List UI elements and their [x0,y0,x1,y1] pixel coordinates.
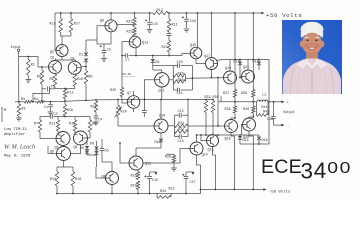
svg-text:R11: R11 [49,123,55,127]
wire output minus [274,124,284,126]
svg-text:D5: D5 [80,147,84,151]
transistor Q6 [57,147,71,161]
wire bottom left rail [57,190,201,194]
wire Q11 emitter [161,87,163,100]
wire R12 to Q4 [75,131,78,135]
resistor R19 [95,99,97,102]
svg-text:C12: C12 [178,110,184,114]
diode D14 [258,60,260,62]
capacitor C16 [186,13,188,19]
svg-text:C15: C15 [152,179,158,183]
resistor R23 lower [136,181,139,190]
resistor R9 [54,73,56,76]
resistor R10 [74,73,76,75]
svg-text:Q8: Q8 [102,176,106,180]
svg-text:Q14: Q14 [202,154,208,158]
wire Q16 base [201,135,207,141]
resistor R13 vas [63,89,66,99]
svg-text:D15: D15 [243,139,249,143]
node rail junctions [60,12,62,14]
wire left stub from rail [54,13,56,44]
svg-text:R33: R33 [205,96,211,100]
diode D5 [86,141,88,146]
svg-text:R40: R40 [243,108,249,112]
svg-text:C17: C17 [190,181,196,185]
svg-text:D1: D1 [79,54,83,58]
resistor R39 [233,106,236,113]
wire Q18 collector [231,118,235,120]
wire base hook [33,89,50,102]
svg-text:R42: R42 [263,111,269,115]
svg-text:Q17: Q17 [204,55,210,59]
wire Q15 collector [197,13,199,49]
resistor R34 [156,194,158,198]
svg-text:C13: C13 [178,140,184,144]
resistor R21 [134,13,136,18]
svg-text:C15: C15 [152,23,158,27]
wire Q14 collector [196,135,198,142]
resistor R16 [64,101,66,105]
svg-text:C16: C16 [190,20,196,24]
diode D9 [152,56,154,59]
svg-text:R16: R16 [67,109,73,113]
ladder C11 [173,89,177,91]
wire bottom -56V rail [201,189,265,191]
capacitor C18 [271,117,276,119]
svg-text:C6: C6 [105,150,109,154]
diode D8 [94,151,98,154]
resistor R12 [74,117,76,121]
wire R5 top [41,67,43,71]
svg-text:W. M. Leach: W. M. Leach [4,144,35,151]
capacitor C4 [95,112,97,116]
capacitor C5 [103,44,105,50]
resistor R8 [89,117,91,121]
ladder R29 [173,74,185,77]
wire Q3 base [82,66,86,68]
node input [17,49,20,52]
wire to Q15 base [169,54,190,56]
resistor R36 [212,100,214,101]
svg-text:May 8, 1978: May 8, 1978 [4,155,31,159]
ladder C10 [153,65,178,67]
svg-text:R1: R1 [31,64,35,68]
wire Q7 stubs [133,91,135,96]
svg-text:0: 0 [327,160,338,177]
wire Q15 emitter [196,59,206,64]
svg-text:Q6: Q6 [50,151,54,155]
svg-text:R7: R7 [34,123,38,127]
transistor Q2 [56,132,70,146]
svg-text:-56 Volts: -56 Volts [269,189,291,194]
svg-text:43-46: 43-46 [122,73,131,76]
svg-text:R23: R23 [127,31,133,35]
svg-text:R39: R39 [225,108,231,112]
wire Q13 collector [134,35,136,37]
svg-text:R3: R3 [21,98,25,102]
resistor R27 [167,41,170,53]
ground [101,59,107,62]
capacitor C7 [126,53,128,58]
capacitor C1 shunt [50,102,52,105]
svg-text:Q15: Q15 [190,44,196,48]
resistor R15 [60,13,62,19]
svg-text:C5: C5 [107,49,111,53]
wire Q9 emitter to C5 [104,32,111,44]
svg-text:R2: R2 [22,108,26,112]
diode D15 [238,136,242,139]
capacitor C15 [149,13,151,21]
resistor R7 [39,117,41,121]
transistor Q7 [127,96,140,109]
wire input coupling to Q1 base [28,57,49,68]
svg-text:D10: D10 [155,141,161,145]
resistor R25 [120,88,123,97]
wire Q10 collector [160,100,162,120]
resistor R11 lower [57,117,59,121]
ground [18,117,20,118]
diode D7 [85,151,89,154]
svg-text:R29: R29 [178,73,184,77]
svg-text:R4: R4 [34,98,38,102]
resistor R33 [205,100,207,101]
svg-text:C11: C11 [177,92,183,96]
wire Q16 emitter [213,147,216,190]
svg-text:R11: R11 [172,24,178,28]
svg-text:R19: R19 [91,106,97,110]
wire Q5 emitter to diff pair [61,57,63,61]
transistor Q4 [74,131,88,145]
svg-text:R15: R15 [50,178,56,182]
wire diode return [240,143,269,145]
resistor R11 [168,13,170,19]
svg-text:R27: R27 [162,46,168,50]
capacitor C1 [48,87,50,92]
wire Q21 collector [247,60,249,71]
wire Q17 emitter down [211,70,213,78]
resistor R19 lower [72,167,74,172]
transistor Q16 [207,135,219,147]
svg-text:R9: R9 [50,78,54,82]
wire R11 to Q2 [58,131,60,136]
capacitor C15 lower [149,172,151,176]
svg-text:R12: R12 [69,123,75,127]
svg-text:R17: R17 [74,23,80,27]
wire R25 to Q7 base [122,97,127,104]
ground [184,29,190,32]
svg-text:C3: C3 [54,113,58,117]
svg-text:Low TIM-IL: Low TIM-IL [4,128,28,132]
svg-text:R25: R25 [110,89,116,93]
node [135,55,137,57]
capacitor C9 [168,32,170,33]
svg-text:Q12: Q12 [145,163,151,167]
ladder R32 [175,130,189,133]
resistor R38 [252,90,255,98]
resistor R24 trimmer [117,100,119,106]
resistor R26 [136,172,139,180]
node mid dots [18,101,20,103]
svg-text:R10: R10 [77,78,83,82]
ground [27,75,29,79]
wire C17 top [186,171,193,173]
svg-text:R6: R6 [88,76,92,80]
wire Q18 base line [188,125,225,127]
svg-text:Q13: Q13 [142,42,148,46]
wire cross net [58,116,75,118]
wire Q13 emitter to mid line [135,48,137,56]
resistor R2 [18,102,20,104]
svg-text:R38: R38 [241,92,247,96]
wire to output terminal [268,101,283,103]
svg-text:R26: R26 [131,175,137,179]
wire Q10 base [118,125,154,127]
wire Q12 emitter [136,170,138,172]
transistor Q10 [154,119,168,133]
transistor Q20 [243,118,256,131]
ladder C13 [175,136,180,138]
transistor Q15 [190,47,202,59]
ground [93,122,99,125]
wire Q2 emitter to Q6 [62,145,65,148]
wire C15 top [150,171,157,173]
svg-text:Q4: Q4 [74,146,78,150]
arrow output plus [281,101,284,104]
svg-text:R32: R32 [178,128,184,132]
resistor R23 [133,28,136,36]
svg-text:Q1: Q1 [51,57,55,61]
wire Q14 base to Q12 [143,149,190,164]
wire Q21 base [240,76,242,78]
wire right bus B [252,13,254,90]
wire Q5 base [55,44,56,51]
wire ladder rails [172,66,174,91]
wire Q9 to R21 [117,24,135,26]
resistor R37 [233,90,236,98]
svg-text:R28: R28 [165,156,171,160]
wire tail join [55,87,75,89]
ground [147,30,153,33]
wire vas input line [122,55,125,57]
capacitor C6 [101,139,103,148]
resistor R6 [85,69,87,72]
svg-text:Q3: Q3 [71,58,75,62]
resistor R41 [256,102,258,115]
capacitor C3 [40,116,50,118]
svg-text:Q7: Q7 [127,92,131,96]
wire Q12 base [120,143,129,163]
transistor Q3 [68,61,81,74]
wire bias rail [217,78,219,127]
svg-text:+: + [287,101,289,105]
wire Q20 emitter [249,131,253,190]
ladder R31 [175,124,189,127]
wire Q9 collector [110,13,112,20]
svg-text:+56 Volts: +56 Volts [266,12,302,19]
svg-text:Q5: Q5 [50,51,54,55]
svg-text:R21: R21 [127,20,133,24]
transistor Q12 [129,156,143,170]
capacitor C8 [144,100,146,111]
wire Q2 base [40,132,56,139]
wire mid line right [45,100,213,102]
svg-text:-: - [287,125,289,129]
svg-text:R19: R19 [75,178,81,182]
resistor R13 [153,11,168,14]
svg-text:D16: D16 [262,139,268,143]
wire Q11 collector [153,70,162,73]
resistor R1 [27,59,30,75]
arrow output minus [281,124,284,127]
svg-text:R13: R13 [67,92,73,96]
transistor Q9 [105,20,117,32]
node +56V arrow [261,12,264,15]
resistor R4 [32,101,37,103]
node bottom dots [56,193,58,195]
svg-text:Q9: Q9 [100,20,104,24]
resistor R40 [252,106,255,113]
wire Q11 base [145,80,155,100]
svg-text:C1: C1 [44,106,48,110]
wire driver base line [186,77,224,79]
photo portrait [282,20,342,94]
transistor Q18 [225,120,238,133]
wire Q4 to Q6 [71,145,81,154]
diode D16 [258,135,260,136]
svg-text:Amplifier: Amplifier [4,132,25,137]
wire lower driver line [197,134,259,136]
ladder R30 [173,80,185,83]
transistor Q19 [224,71,237,84]
wire input down [18,52,20,102]
wire ladder rails lower [174,115,176,136]
svg-text:Output: Output [283,110,295,114]
svg-text:Input: Input [11,46,21,50]
wire Q17 collector [211,13,213,58]
resistor R15 lower [56,167,58,172]
arrow -56V [263,188,266,191]
svg-text:0: 0 [340,160,351,177]
capacitor C2 [1,107,3,122]
svg-text:R41: R41 [262,106,268,110]
wire [205,113,207,136]
transistor Q11 [155,73,169,87]
svg-text:C7: C7 [125,59,129,63]
wire Q19 collector [229,60,231,72]
svg-text:R23: R23 [131,185,137,189]
wire [212,113,214,136]
svg-text:R37: R37 [223,92,229,96]
wire output node line [218,101,257,103]
diode D2 [84,59,88,62]
wire input to R1 [19,57,29,60]
wire right bus A [234,13,236,90]
wire Q9 base net [97,26,105,44]
diode D13 [239,60,241,62]
svg-text:Q10: Q10 [159,115,165,119]
svg-text:R15: R15 [50,23,56,27]
wire top +56V rail [55,12,153,14]
svg-text:D9: D9 [155,61,159,65]
inductor L1 [257,100,268,102]
wire diode join [87,154,97,156]
ground [48,112,54,115]
wire output column [268,60,270,102]
resistor R28 [166,154,174,155]
wire Q13 base rail [122,42,129,88]
ladder C12 [175,114,180,116]
wire Q12 collector [135,148,137,156]
wire Q20 base [242,125,243,136]
wire mid line [15,101,24,103]
svg-text:R34: R34 [160,190,166,194]
resistor R5 [40,71,43,85]
transistor Q17 [206,58,218,70]
diode D10 [160,133,162,138]
svg-text:D6: D6 [90,143,94,147]
transistor Q8 [106,172,119,185]
transistor Q14 [190,142,203,155]
wire Q14 emitter [197,155,201,190]
resistor R3 [24,100,32,103]
svg-text:R5: R5 [37,76,41,80]
wire Q17 emitter line [216,60,269,61]
svg-text:R30: R30 [178,79,184,83]
svg-text:R24: R24 [121,111,127,115]
wire Q8 emitter [111,185,113,194]
wire Q6 emitter to R15 [63,161,65,168]
wire R15/R17 to Q5 [61,36,63,44]
svg-text:D13: D13 [234,61,240,65]
ground [173,163,175,168]
wire Q8 base [96,167,106,178]
svg-text:R13: R13 [157,9,163,13]
svg-text:R31: R31 [178,122,184,126]
svg-text:R12: R12 [169,188,175,192]
transistor Q21 [242,70,255,83]
wire Q6 base [48,146,57,154]
resistor R17 [70,13,72,19]
svg-text:C10: C10 [177,61,183,65]
diode D6 [96,141,98,146]
wire Q20 collector [249,117,253,118]
transistor Q1 [49,61,62,74]
diode D1 [85,40,87,52]
transistor Q13 [129,36,141,48]
svg-text:C1: C1 [51,85,55,89]
wire Q18 emitter [231,133,234,190]
capacitor C17 [185,172,187,176]
svg-text:L1: L1 [262,93,266,97]
wire zobel leg [273,102,275,116]
svg-text:Q18: Q18 [225,138,231,142]
transistor Q5 [56,45,68,57]
wire Q4 base [88,132,91,138]
svg-text:C18: C18 [267,118,273,122]
